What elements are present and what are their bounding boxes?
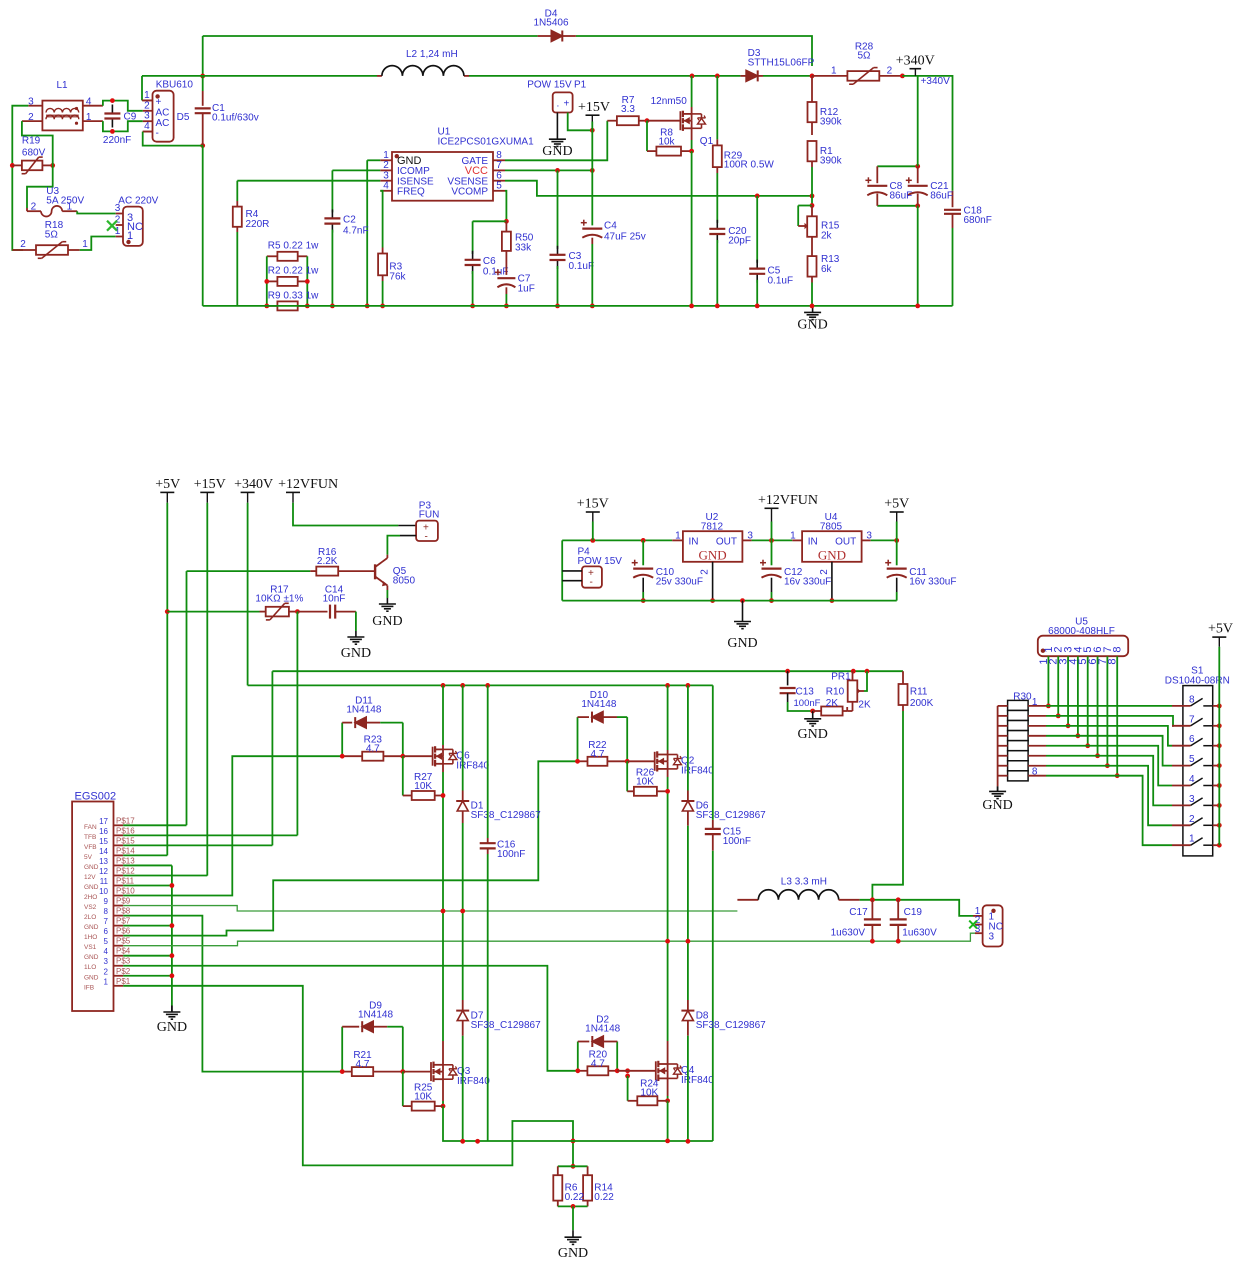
svg-text:100R 0.5W: 100R 0.5W (724, 160, 775, 171)
svg-text:3: 3 (975, 924, 981, 935)
svg-text:+340V: +340V (921, 76, 951, 87)
svg-text:VFB: VFB (84, 844, 97, 851)
svg-text:68000-408HLF: 68000-408HLF (1048, 626, 1115, 637)
svg-text:1HO: 1HO (84, 934, 97, 941)
svg-text:7805: 7805 (820, 521, 843, 532)
svg-text:GND: GND (84, 974, 99, 981)
svg-text:GND: GND (372, 614, 402, 629)
svg-text:4: 4 (104, 947, 109, 956)
svg-text:2: 2 (887, 66, 893, 77)
svg-text:P$16: P$16 (116, 826, 135, 835)
svg-text:IRF840: IRF840 (456, 761, 489, 772)
svg-text:680nF: 680nF (964, 215, 992, 226)
svg-text:AC 220V: AC 220V (118, 196, 158, 207)
svg-text:GND: GND (797, 317, 827, 332)
svg-text:0.1uF: 0.1uF (569, 261, 595, 272)
svg-text:5V: 5V (84, 854, 93, 861)
svg-text:FUN: FUN (419, 510, 440, 521)
svg-text:D5: D5 (177, 112, 190, 123)
svg-text:2K: 2K (826, 698, 839, 709)
svg-text:ICE2PCS01GXUMA1: ICE2PCS01GXUMA1 (438, 136, 535, 147)
svg-text:0.1uf/630v: 0.1uf/630v (212, 112, 259, 123)
svg-text:2: 2 (104, 967, 109, 976)
svg-text:4.7nF: 4.7nF (343, 226, 369, 237)
svg-text:R30: R30 (1013, 692, 1032, 703)
svg-text:OUT: OUT (716, 537, 737, 548)
svg-text:EGS002: EGS002 (75, 791, 117, 803)
svg-text:2.2K: 2.2K (317, 556, 338, 567)
svg-text:47uF 25v: 47uF 25v (604, 232, 646, 243)
svg-text:P$8: P$8 (116, 907, 131, 916)
svg-text:10KΩ ±1%: 10KΩ ±1% (255, 594, 303, 605)
svg-text:GND: GND (341, 646, 371, 661)
svg-text:0.22: 0.22 (565, 1192, 585, 1203)
svg-text:C4: C4 (604, 221, 617, 232)
svg-text:8: 8 (1112, 646, 1124, 652)
svg-text:+: + (156, 97, 162, 108)
svg-text:5: 5 (104, 937, 109, 946)
svg-text:R9 0.33 1w: R9 0.33 1w (268, 290, 319, 301)
svg-text:P$3: P$3 (116, 957, 131, 966)
svg-text:GND: GND (157, 1020, 187, 1035)
svg-text:10K: 10K (414, 781, 432, 792)
svg-text:5: 5 (496, 181, 502, 192)
svg-text:-: - (590, 577, 593, 588)
svg-text:86uF: 86uF (930, 191, 953, 202)
svg-text:P$13: P$13 (116, 856, 135, 865)
svg-text:220nF: 220nF (103, 135, 131, 146)
svg-text:P$2: P$2 (116, 967, 131, 976)
svg-text:P$5: P$5 (116, 937, 131, 946)
svg-text:8050: 8050 (393, 576, 416, 587)
svg-text:1: 1 (675, 530, 681, 541)
svg-text:AC: AC (156, 107, 170, 118)
svg-text:L1: L1 (56, 80, 68, 91)
svg-text:1: 1 (144, 90, 150, 101)
svg-text:L3 3.3 mH: L3 3.3 mH (781, 877, 827, 888)
svg-text:1N4148: 1N4148 (346, 705, 381, 716)
svg-text:14: 14 (99, 847, 108, 856)
svg-text:10nF: 10nF (323, 594, 346, 605)
svg-text:+12VFUN: +12VFUN (278, 477, 338, 492)
svg-text:PR1: PR1 (831, 672, 851, 683)
svg-text:R10: R10 (826, 687, 845, 698)
svg-text:8: 8 (104, 907, 109, 916)
svg-text:IRF840: IRF840 (681, 1075, 714, 1086)
svg-text:10k: 10k (658, 137, 675, 148)
svg-text:POW 15V: POW 15V (527, 80, 572, 91)
svg-text:VCOMP: VCOMP (451, 187, 488, 198)
svg-text:AC: AC (156, 118, 170, 129)
svg-text:86uF: 86uF (890, 191, 913, 202)
svg-text:16v 330uF: 16v 330uF (909, 577, 956, 588)
svg-text:8: 8 (1189, 694, 1195, 705)
svg-text:VS2: VS2 (84, 904, 97, 911)
svg-text:20pF: 20pF (728, 236, 751, 247)
svg-text:C13: C13 (796, 687, 815, 698)
svg-text:-: - (425, 532, 428, 543)
svg-text:33k: 33k (515, 243, 532, 254)
svg-text:+12VFUN: +12VFUN (758, 493, 818, 508)
svg-text:13: 13 (99, 857, 108, 866)
svg-text:100nF: 100nF (794, 698, 821, 709)
svg-text:R2 0.22 1w: R2 0.22 1w (268, 266, 319, 277)
svg-text:OUT: OUT (835, 537, 856, 548)
svg-text:680V: 680V (22, 148, 46, 159)
svg-text:P$17: P$17 (116, 816, 135, 825)
svg-text:STTH15L06FP: STTH15L06FP (748, 58, 815, 69)
svg-text:6k: 6k (821, 264, 833, 275)
svg-text:2: 2 (1189, 814, 1195, 825)
svg-text:10K: 10K (414, 1092, 432, 1103)
svg-text:4.7: 4.7 (591, 1058, 605, 1069)
svg-text:IN: IN (808, 537, 818, 548)
svg-text:SF38_C129867: SF38_C129867 (471, 1020, 541, 1031)
svg-text:SF38_C129867: SF38_C129867 (696, 810, 766, 821)
svg-text:GND: GND (84, 924, 99, 931)
svg-text:100nF: 100nF (723, 836, 751, 847)
svg-text:P$11: P$11 (116, 877, 135, 886)
svg-text:4: 4 (1189, 774, 1195, 785)
svg-text:+5V: +5V (155, 477, 180, 492)
svg-text:SF38_C129867: SF38_C129867 (471, 810, 541, 821)
svg-text:1: 1 (82, 239, 88, 250)
svg-text:POW 15V: POW 15V (578, 556, 623, 567)
svg-text:+340V: +340V (896, 54, 935, 69)
svg-text:10K: 10K (640, 1088, 658, 1099)
svg-text:4: 4 (383, 181, 389, 192)
svg-text:3: 3 (1189, 794, 1195, 805)
svg-text:100nF: 100nF (497, 849, 525, 860)
svg-text:1: 1 (831, 66, 837, 77)
svg-text:L2 1,24 mH: L2 1,24 mH (406, 49, 458, 60)
svg-text:16v 330uF: 16v 330uF (784, 577, 831, 588)
svg-text:+: + (564, 99, 570, 110)
svg-text:P$12: P$12 (116, 866, 135, 875)
svg-text:5A 250V: 5A 250V (46, 196, 84, 207)
svg-text:+15V: +15V (194, 477, 226, 492)
svg-text:1N4148: 1N4148 (581, 699, 616, 710)
svg-text:P$15: P$15 (116, 836, 135, 845)
svg-text:+15V: +15V (577, 497, 609, 512)
svg-text:GND: GND (798, 727, 828, 742)
svg-text:1: 1 (115, 226, 121, 237)
svg-text:GND: GND (818, 547, 846, 562)
svg-text:FAN: FAN (84, 824, 97, 831)
svg-text:2k: 2k (821, 231, 833, 242)
svg-text:+5V: +5V (1208, 622, 1233, 637)
svg-text:5Ω: 5Ω (857, 51, 871, 62)
svg-text:5: 5 (1189, 754, 1195, 765)
svg-text:P$14: P$14 (116, 846, 135, 855)
svg-text:2HO: 2HO (84, 894, 97, 901)
svg-text:1N4148: 1N4148 (585, 1024, 620, 1035)
svg-text:GND: GND (982, 798, 1012, 813)
svg-text:.: . (557, 99, 560, 110)
svg-text:6: 6 (1189, 734, 1195, 745)
svg-text:5Ω: 5Ω (45, 230, 59, 241)
svg-text:2: 2 (144, 100, 150, 111)
svg-text:12: 12 (99, 867, 108, 876)
svg-text:GND: GND (84, 884, 99, 891)
svg-text:GND: GND (84, 864, 99, 871)
svg-text:GND: GND (542, 144, 572, 159)
svg-text:C19: C19 (904, 907, 923, 918)
svg-text:+340V: +340V (234, 477, 273, 492)
svg-text:6: 6 (104, 927, 109, 936)
svg-text:IRF840: IRF840 (681, 766, 714, 777)
svg-text:SF38_C129867: SF38_C129867 (696, 1020, 766, 1031)
svg-text:GND: GND (397, 155, 422, 167)
svg-text:4.7: 4.7 (590, 749, 604, 760)
svg-text:3.3: 3.3 (621, 104, 635, 115)
svg-text:12V: 12V (84, 874, 96, 881)
svg-text:GND: GND (699, 547, 727, 562)
svg-text:3: 3 (866, 530, 872, 541)
svg-text:P$10: P$10 (116, 887, 135, 896)
svg-text:C2: C2 (343, 215, 356, 226)
svg-text:GND: GND (84, 954, 99, 961)
svg-text:P$4: P$4 (116, 947, 131, 956)
svg-text:P$9: P$9 (116, 897, 131, 906)
svg-text:220R: 220R (246, 219, 270, 230)
svg-text:+5V: +5V (884, 497, 909, 512)
svg-text:GND: GND (727, 636, 757, 651)
svg-text:4.7: 4.7 (356, 1059, 370, 1070)
svg-text:7812: 7812 (701, 521, 724, 532)
svg-text:4.7: 4.7 (366, 744, 380, 755)
svg-text:7: 7 (1189, 714, 1195, 725)
svg-text:390k: 390k (820, 156, 843, 167)
svg-text:3: 3 (115, 203, 121, 214)
svg-text:3: 3 (144, 111, 150, 122)
svg-text:2K: 2K (858, 700, 871, 711)
svg-text:C17: C17 (849, 907, 868, 918)
svg-text:200K: 200K (910, 698, 934, 709)
svg-text:C9: C9 (124, 112, 137, 123)
svg-text:IN: IN (689, 537, 699, 548)
svg-text:KBU610: KBU610 (156, 80, 194, 91)
svg-text:1LO: 1LO (84, 964, 96, 971)
svg-text:2LO: 2LO (84, 914, 96, 921)
svg-text:12nm50: 12nm50 (651, 96, 688, 107)
svg-text:10: 10 (99, 887, 108, 896)
svg-text:2: 2 (115, 215, 121, 226)
svg-text:TFB: TFB (84, 834, 96, 841)
svg-text:P$1: P$1 (116, 977, 131, 986)
svg-text:P$6: P$6 (116, 927, 131, 936)
svg-text:R11: R11 (910, 687, 928, 698)
svg-text:2: 2 (31, 202, 37, 213)
svg-text:1: 1 (790, 530, 796, 541)
svg-text:1: 1 (104, 977, 109, 986)
svg-text:4: 4 (144, 121, 150, 132)
svg-text:-: - (156, 128, 159, 139)
svg-text:17: 17 (99, 817, 108, 826)
svg-text:1u630V: 1u630V (902, 928, 937, 939)
svg-text:10K: 10K (636, 777, 654, 788)
svg-text:76k: 76k (389, 272, 406, 283)
svg-text:390k: 390k (820, 117, 843, 128)
svg-text:VCC: VCC (465, 165, 488, 177)
svg-text:1N5406: 1N5406 (533, 18, 568, 29)
svg-text:GND: GND (558, 1246, 588, 1261)
svg-text:2: 2 (20, 239, 26, 250)
svg-text:8: 8 (1032, 767, 1038, 778)
svg-text:P$7: P$7 (116, 917, 131, 926)
svg-text:1: 1 (67, 202, 73, 213)
svg-text:P1: P1 (574, 80, 587, 91)
svg-text:0.1uF: 0.1uF (768, 276, 794, 287)
svg-text:FREQ: FREQ (397, 187, 425, 198)
svg-text:IFB: IFB (84, 984, 94, 991)
svg-text:16: 16 (99, 827, 108, 836)
svg-text:7: 7 (104, 917, 109, 926)
svg-text:1u630V: 1u630V (831, 928, 866, 939)
svg-text:25v 330uF: 25v 330uF (656, 577, 703, 588)
svg-text:1N4148: 1N4148 (358, 1010, 393, 1021)
svg-text:2: 2 (700, 569, 711, 575)
svg-text:2: 2 (819, 569, 830, 575)
svg-text:1: 1 (1189, 834, 1195, 845)
svg-text:VS1: VS1 (84, 944, 97, 951)
svg-text:0.22: 0.22 (594, 1192, 614, 1203)
svg-text:9: 9 (104, 897, 109, 906)
svg-text:R5 0.22 1w: R5 0.22 1w (268, 241, 319, 252)
svg-text:3: 3 (989, 932, 995, 943)
svg-text:1uF: 1uF (518, 284, 535, 295)
svg-text:R19: R19 (22, 136, 41, 147)
svg-text:3: 3 (104, 957, 109, 966)
svg-text:15: 15 (99, 837, 108, 846)
svg-text:11: 11 (100, 877, 109, 886)
svg-text:+15V: +15V (578, 100, 610, 115)
svg-text:C6: C6 (483, 256, 496, 267)
svg-text:1: 1 (1032, 697, 1038, 708)
svg-text:Q1: Q1 (700, 136, 714, 147)
